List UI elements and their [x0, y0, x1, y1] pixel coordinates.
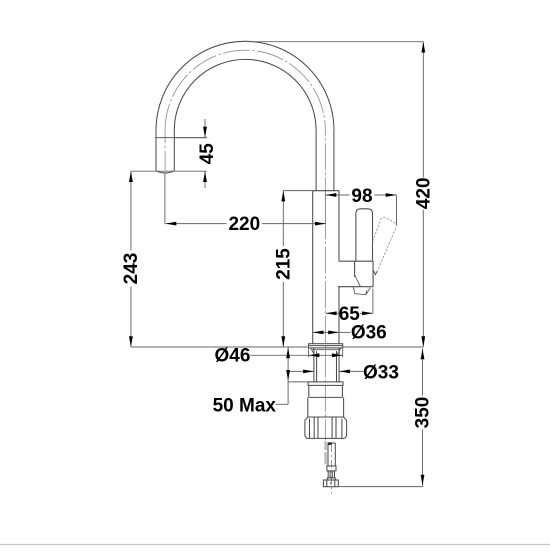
dim 215 extension: [283, 190, 312, 192]
dim 45 arrows: [203, 127, 207, 182]
dim Ø36 arrows: [313, 331, 339, 335]
bottom extension line: [338, 486, 423, 488]
dim 420 extension top: [246, 41, 423, 43]
mounting shank: [314, 348, 339, 382]
dim 50max line: [276, 348, 309, 405]
dim 420 line: [422, 42, 424, 347]
left tube centerline: [164, 130, 166, 170]
dim 45 line: [204, 119, 206, 188]
dim 220 arrows: [166, 222, 326, 226]
dim 65 arrows: [326, 311, 373, 315]
svg-text:220: 220: [228, 214, 260, 235]
left spout tube: [156, 130, 174, 171]
stud top cap: [328, 442, 332, 445]
svg-text:Ø33: Ø33: [363, 363, 399, 384]
dim 65 extension right: [372, 289, 374, 314]
dim 350 arrows: [421, 349, 425, 486]
flange plate: [309, 344, 343, 348]
dim Ø36 line: [313, 331, 351, 333]
counter reference line: [131, 346, 423, 348]
knurled nut: [305, 417, 347, 438]
handle base block: [338, 261, 373, 287]
centerline dimension reference segment: [324, 191, 326, 224]
svg-text:Ø36: Ø36: [351, 323, 387, 344]
dim 243 line: [130, 171, 132, 347]
handle lever tip mark: [373, 271, 377, 275]
footer separator line: [0, 544, 550, 546]
hex nut: [323, 480, 338, 487]
dim 65 line: [326, 312, 373, 314]
aerator joint line: [156, 137, 207, 139]
dim Ø46 extensions: [309, 348, 343, 358]
aerator outlet bottom: [157, 171, 174, 173]
handle base notch: [353, 275, 370, 295]
small band: [327, 478, 335, 480]
dim 215 line: [282, 191, 284, 347]
svg-text:50 Max: 50 Max: [213, 395, 277, 416]
stud centerline: [330, 444, 332, 494]
dim 98 arrows: [326, 193, 397, 197]
svg-text:243: 243: [121, 253, 142, 285]
dim 220 extension (spout centerline down): [164, 174, 166, 224]
right spout tube: [316, 130, 334, 190]
handle lever angled (second position): [373, 217, 397, 272]
svg-text:Ø46: Ø46: [215, 346, 251, 367]
dim Ø33 line: [288, 370, 363, 372]
flange skirt: [310, 348, 341, 355]
dim 420 arrows: [421, 42, 425, 347]
main body centerline: [324, 130, 326, 440]
svg-text:215: 215: [273, 248, 294, 280]
dim Ø46 arrows: [309, 353, 343, 357]
faucet body column: [313, 191, 339, 344]
handle lever vertical: [356, 209, 373, 261]
svg-text:420: 420: [414, 177, 435, 209]
svg-text:350: 350: [413, 397, 434, 429]
supply hose: [324, 441, 327, 464]
dim 98 extension right: [396, 195, 398, 225]
dim 50max arrows: [286, 348, 290, 381]
nut block B: [308, 397, 344, 417]
dim 45 extension bottom: [131, 170, 207, 172]
stud collar: [327, 466, 336, 471]
nut block A: [309, 385, 343, 397]
spout centerline arc: [165, 50, 325, 130]
hex nut center dot: [330, 482, 332, 484]
dim Ø46 leader: [251, 354, 343, 356]
nut washer: [308, 382, 343, 386]
dim 45 extension top: [174, 137, 207, 139]
svg-text:45: 45: [197, 143, 218, 165]
threaded section: [328, 471, 334, 478]
spout inner arc: [174, 59, 316, 130]
svg-text:98: 98: [351, 186, 372, 207]
dim 350 line: [422, 349, 424, 486]
dim 98 line: [326, 194, 397, 196]
dim 220 line: [166, 223, 326, 225]
dim Ø33 arrows: [303, 370, 350, 374]
dim 243 arrows: [129, 171, 133, 347]
mounting stud: [328, 443, 335, 466]
spout outer arc: [156, 41, 334, 130]
dim 215 arrows: [281, 191, 285, 347]
